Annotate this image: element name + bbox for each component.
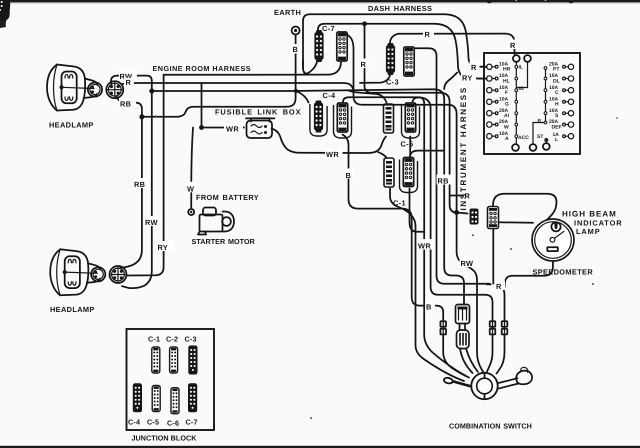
svg-text:C-6: C-6 [167,419,179,428]
svg-text:H: H [555,102,559,108]
svg-text:C: C [555,90,559,96]
svg-text:STARTER MOTOR: STARTER MOTOR [192,237,256,246]
svg-text:C-1: C-1 [148,335,160,344]
svg-text:HIGH BEAM: HIGH BEAM [562,210,617,219]
svg-text:R: R [361,60,367,69]
svg-text:HR: HR [503,67,511,73]
svg-text:RY: RY [462,73,473,82]
svg-text:F: F [505,90,508,96]
svg-text:W: W [504,124,509,130]
svg-text:C-5: C-5 [401,140,414,149]
svg-text:C-5: C-5 [147,418,159,427]
svg-text:AI: AI [504,113,510,119]
svg-text:LAMP: LAMP [576,227,601,236]
svg-text:C-3: C-3 [185,335,197,344]
svg-text:G: G [505,102,509,108]
svg-text:DASH HARNESS: DASH HARNESS [368,4,432,13]
svg-text:B: B [293,45,299,54]
svg-text:ACC: ACC [518,135,529,141]
svg-text:A: A [505,136,509,142]
svg-text:EARTH: EARTH [274,8,301,17]
svg-text:JUNCTION BLOCK: JUNCTION BLOCK [132,434,198,443]
svg-text:B: B [538,119,542,125]
svg-text:ENGINE ROOM HARNESS: ENGINE ROOM HARNESS [153,64,252,73]
svg-text:R: R [425,30,431,39]
svg-text:HL: HL [503,78,510,84]
svg-text:DEF: DEF [552,124,562,130]
svg-text:IG: IG [519,86,524,92]
svg-text:R: R [510,41,516,50]
svg-text:RW: RW [461,259,474,268]
svg-text:DL: DL [553,78,560,84]
svg-text:R: R [126,78,132,87]
svg-text:C-7: C-7 [322,24,335,33]
svg-text:HEADLAMP: HEADLAMP [50,305,95,314]
svg-text:FUSIBLE LINK BOX: FUSIBLE LINK BOX [215,107,301,116]
svg-text:IL: IL [519,65,523,71]
svg-text:WR: WR [418,242,431,251]
svg-text:R: R [471,63,477,72]
svg-text:C-2: C-2 [166,335,178,344]
svg-text:INSTRUMENT HARNESS: INSTRUMENT HARNESS [459,86,468,210]
svg-text:WR: WR [326,150,339,159]
svg-text:C-7: C-7 [186,418,198,427]
svg-text:FROM BATTERY: FROM BATTERY [196,193,259,202]
svg-text:R: R [496,282,502,291]
svg-text:RB: RB [134,180,145,189]
svg-text:RB: RB [438,177,449,186]
svg-text:B: B [426,303,432,312]
svg-text:C-4: C-4 [323,91,336,100]
svg-text:WR: WR [226,124,239,133]
svg-text:RW: RW [145,218,158,227]
svg-text:COMBINATION SWITCH: COMBINATION SWITCH [449,422,532,431]
svg-text:C-4: C-4 [128,418,140,427]
svg-text:L: L [555,137,558,143]
svg-text:W: W [187,185,194,194]
svg-text:B: B [346,171,352,180]
svg-text:PT: PT [553,67,559,73]
svg-text:RB: RB [120,100,131,109]
svg-text:HEADLAMP: HEADLAMP [49,121,94,130]
svg-text:RY: RY [158,243,169,252]
svg-text:ST: ST [537,134,543,140]
